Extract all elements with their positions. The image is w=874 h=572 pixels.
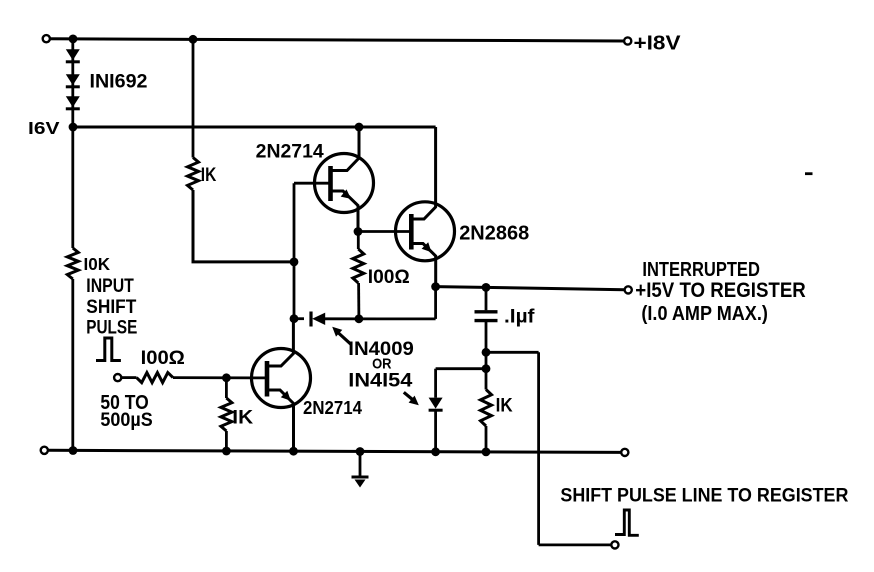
svg-text:IK: IK <box>201 165 217 186</box>
resistor R4 100 ohm (input) <box>137 373 174 383</box>
node junction bottom rail / left rail <box>69 446 78 455</box>
node junction bottom rail / R5 <box>222 447 231 456</box>
svg-text:(I.0 AMP MAX.): (I.0 AMP MAX.) <box>641 303 768 325</box>
ground symbol <box>359 452 362 477</box>
transistor Q1 emitter arrow <box>341 189 351 199</box>
transistor Q1 emitter lead <box>331 191 359 232</box>
wire capacitor top lead <box>485 287 488 310</box>
wire 100ohm top lead <box>357 232 360 250</box>
node junction top rail / diode branch <box>69 35 78 44</box>
diode CR3 1N1692 (bottom of stack) <box>66 96 80 107</box>
node junction cap / shift-pulse tap <box>482 348 491 357</box>
node 16V junction <box>69 123 78 132</box>
wire D5 branch vertical upper <box>434 369 437 398</box>
diode CR1 1N1692 (top of stack) <box>66 49 80 60</box>
transistor Q3 emitter arrow <box>281 391 291 401</box>
transistor Q3 emitter lead <box>267 390 294 451</box>
svg-text:I00Ω: I00Ω <box>368 267 410 288</box>
wire +18V top rail <box>49 39 625 41</box>
wire Q1 base lead <box>294 182 331 185</box>
wire left rail to 10K <box>71 127 74 248</box>
diode CR2 1N1692 (middle of stack) <box>66 74 80 85</box>
svg-text:INI692: INI692 <box>90 72 148 93</box>
output pulse waveform symbol <box>615 510 639 535</box>
node junction D5 branch / 1K R6 <box>482 364 491 373</box>
node junction top rail / 1K R1 branch <box>189 35 198 44</box>
wire D5 to bottom rail <box>434 411 437 452</box>
transistor Q2 2N2868 circle <box>396 202 455 261</box>
svg-text:2N2868: 2N2868 <box>459 223 529 245</box>
wire Q1 base vertical (base node down to diode line) <box>293 183 296 319</box>
svg-text:PULSE: PULSE <box>86 316 137 338</box>
transistor Q3 base bar <box>265 361 270 397</box>
svg-text:IK: IK <box>496 394 513 416</box>
transistor Q2 emitter arrow <box>422 242 432 252</box>
wire R1 bottom to Q1 base node <box>193 190 294 262</box>
wire capacitor bottom lead <box>485 322 488 352</box>
wire R1 from +18V rail <box>192 39 195 157</box>
node junction bottom rail / Q3 emitter <box>289 447 298 456</box>
node junction bottom rail / R6 <box>482 448 491 457</box>
svg-text:I00Ω: I00Ω <box>141 348 185 369</box>
wire 100ohm bottom lead <box>357 283 360 319</box>
node junction diode line / Q1-base line <box>290 314 299 323</box>
resistor R5 1K lead top <box>225 378 228 398</box>
resistor R3 100 ohm <box>353 249 364 283</box>
terminal bottom rail right <box>621 449 628 456</box>
wire shift-pulse tap bottom horizontal <box>539 544 612 547</box>
resistor R6 1K <box>481 390 492 427</box>
label pointer arrow to 1N4009 <box>339 333 352 345</box>
diode D5 1N4154 (points down) <box>429 398 443 409</box>
resistor R2 10K <box>67 248 78 279</box>
svg-text:IN4I54: IN4I54 <box>348 370 412 392</box>
label pointer arrow to 1N4154 <box>404 392 413 399</box>
wire Q2 base lead <box>358 230 411 233</box>
terminal +18V left input <box>43 35 50 42</box>
svg-text:I0K: I0K <box>84 254 111 274</box>
svg-text:2N2714: 2N2714 <box>256 142 324 163</box>
wire left rail upper (through 1N1692 stack) <box>71 39 74 127</box>
wire shift-pulse tap vertical <box>537 352 540 545</box>
wire 16V rail <box>73 126 436 129</box>
transistor Q2 base bar <box>409 214 414 250</box>
svg-text:500µS: 500µS <box>100 409 152 431</box>
terminal shift pulse input <box>114 374 121 381</box>
transistor Q3 collector lead <box>267 319 293 366</box>
transistor Q2 emitter lead <box>411 244 435 287</box>
node junction input / 1K R5 <box>222 373 231 382</box>
node junction output line / capacitor branch <box>482 283 491 292</box>
wire ground bottom rail <box>48 450 621 452</box>
wire input lead <box>121 376 136 379</box>
wire shift-pulse tap horizontal <box>486 351 539 354</box>
svg-text:.Iµf: .Iµf <box>504 306 535 327</box>
node junction R1 / Q1 base line <box>290 258 299 267</box>
wire output node down to commutating diode line <box>434 287 437 319</box>
diode D4 1N4009 (points left) <box>309 312 312 327</box>
terminal bottom rail left <box>41 447 48 454</box>
resistor R6 1K lead top <box>485 369 488 390</box>
transistor Q3 2N2714 circle <box>252 349 311 408</box>
terminal +15V to register <box>625 286 632 293</box>
svg-text:INPUT: INPUT <box>86 276 134 297</box>
wire commutating diode line left segment <box>294 317 304 320</box>
svg-text:SHIFT: SHIFT <box>86 296 136 318</box>
wire left rail below 10K <box>71 279 74 451</box>
input pulse waveform symbol <box>96 338 121 361</box>
node junction Q2 emitter / output line <box>431 282 440 291</box>
wire R5 bottom lead <box>225 431 228 451</box>
node junction bottom rail / ground <box>356 447 365 456</box>
resistor R1 1K <box>188 158 199 191</box>
transistor Q1 base bar <box>328 166 333 201</box>
svg-text:SHIFT PULSE LINE TO REGISTER: SHIFT PULSE LINE TO REGISTER <box>560 485 848 507</box>
svg-text:IK: IK <box>232 407 253 429</box>
svg-text:I6V: I6V <box>28 118 60 138</box>
wire +15V output line <box>436 287 625 290</box>
svg-text:2N2714: 2N2714 <box>303 397 363 418</box>
node junction Q1 collector / 16V rail <box>355 123 364 132</box>
node junction diode line / 100ohm <box>355 314 364 323</box>
terminal +18V right <box>624 37 631 44</box>
transistor Q1 2N2714 circle <box>315 154 374 213</box>
node junction bottom rail / D5 <box>431 447 440 456</box>
wire cap node to D5 node <box>485 352 488 368</box>
svg-text:+I5V TO REGISTER: +I5V TO REGISTER <box>635 278 806 302</box>
node junction Q1 emitter / Q2 base / 100ohm <box>354 227 363 236</box>
resistor R5 1K <box>221 398 232 431</box>
wire commutating diode line right segment <box>325 317 436 320</box>
svg-text:+I8V: +I8V <box>634 32 681 55</box>
transistor Q1 collector lead <box>331 127 360 171</box>
capacitor C1 .1uf <box>475 310 498 313</box>
wire D5 branch horizontal <box>436 367 486 370</box>
wire input to Q3 base <box>173 376 268 379</box>
wire R6 bottom lead <box>485 426 488 452</box>
terminal shift pulse line to register <box>611 541 618 548</box>
stray mark dash <box>805 172 813 175</box>
transistor Q2 collector lead <box>411 127 435 219</box>
